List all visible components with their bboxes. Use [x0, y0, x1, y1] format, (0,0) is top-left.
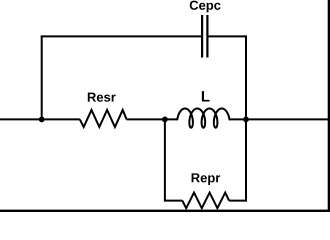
border: bottom edge line — [0, 210, 330, 212]
wire: top branch left segment — [41, 35, 201, 37]
node junction dot at inductor right — [243, 117, 249, 123]
wire: main net right segment — [229, 118, 328, 120]
capacitor C1 Cepc left plate — [201, 15, 203, 58]
wire: left vertical riser to capacitor branch — [41, 36, 43, 119]
label Cepc — [190, 1, 221, 13]
wire: right horizontal of Repr branch — [229, 200, 247, 202]
node junction dot at inductor left — [162, 117, 168, 123]
label Repr — [192, 173, 221, 185]
capacitor C1 Cepc right plate — [206, 15, 208, 58]
wire: right vertical from capacitor down through main wire to Repr branch — [245, 35, 247, 201]
label L — [202, 91, 210, 101]
wire: left vertical of Repr branch — [165, 119, 182, 200]
resistor R2 Repr zigzag — [182, 193, 229, 209]
wire: main net between Resr and L — [127, 118, 178, 120]
inductor L1 coil — [177, 109, 229, 128]
label Resr — [88, 93, 116, 102]
resistor R1 Resr zigzag — [80, 110, 127, 127]
node junction dot left — [39, 117, 45, 123]
wire: top branch right segment — [208, 35, 246, 37]
wire: main net left segment — [0, 118, 80, 120]
border: right edge line — [328, 0, 330, 212]
